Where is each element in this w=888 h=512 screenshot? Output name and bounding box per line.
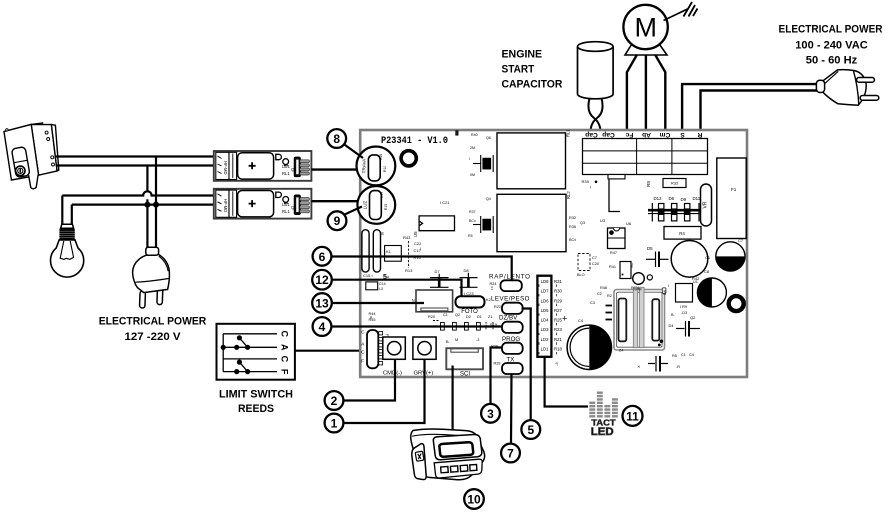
- connector SCI: [446, 348, 483, 369]
- svg-text:11: 11: [626, 409, 639, 423]
- callout 6: [313, 247, 332, 266]
- svg-text:Ab: Ab: [642, 131, 651, 138]
- svg-text:Z1: Z1: [488, 315, 492, 319]
- text ENGINE START CAPACITOR: [502, 49, 563, 91]
- svg-text:I: I: [668, 284, 669, 288]
- svg-text:RPM: RPM: [634, 287, 642, 291]
- transistor Q4 + C25: [473, 216, 493, 233]
- svg-text:K1: K1: [386, 250, 391, 254]
- svg-text:D5: D5: [647, 246, 653, 251]
- svg-text:D8: D8: [663, 290, 667, 295]
- svg-text:4: 4: [319, 320, 326, 334]
- callout 8: [327, 129, 346, 148]
- svg-text:D2: D2: [466, 315, 471, 319]
- svg-text:LD7: LD7: [541, 289, 549, 294]
- svg-text:C15 I: C15 I: [363, 273, 373, 278]
- resistor R4: [664, 227, 701, 240]
- optocoupler U3/U6: [608, 228, 626, 249]
- svg-text:Cap: Cap: [602, 131, 614, 138]
- svg-text:R41: R41: [609, 265, 616, 269]
- svg-text:R28: R28: [494, 362, 501, 366]
- svg-text:U6: U6: [626, 221, 632, 226]
- svg-text:REEDS: REEDS: [238, 403, 274, 415]
- svg-text:-3: -3: [476, 338, 479, 342]
- svg-text:5: 5: [527, 423, 534, 437]
- svg-text:C7: C7: [592, 256, 597, 260]
- relay RL1: [497, 133, 566, 189]
- svg-text:S: S: [680, 131, 685, 138]
- callout 3: [481, 404, 500, 423]
- svg-text:F: F: [280, 369, 290, 375]
- svg-text:Q3: Q3: [580, 221, 585, 225]
- svg-text:U1: U1: [693, 280, 698, 284]
- svg-text:U3: U3: [600, 218, 606, 223]
- diode row D12 D6 D9 D11: [654, 196, 701, 202]
- capacitor C16: [373, 230, 380, 272]
- svg-text:13: 13: [315, 297, 329, 311]
- wire: reeds to board: [295, 350, 360, 352]
- svg-text:C8: C8: [704, 269, 710, 274]
- mounting hole bottom-right: [729, 296, 744, 311]
- svg-text:R47: R47: [610, 251, 617, 255]
- svg-text:R30: R30: [554, 289, 562, 294]
- svg-text:Q2: Q2: [455, 313, 460, 317]
- button CMD(-): [383, 337, 406, 359]
- junction dots: [144, 202, 150, 208]
- svg-text:7: 7: [507, 447, 514, 461]
- svg-text:3: 3: [487, 407, 494, 421]
- svg-text:Q4: Q4: [486, 197, 491, 201]
- svg-text:C1: C1: [443, 313, 448, 317]
- svg-text:SC: SC: [630, 262, 634, 268]
- svg-text:D6: D6: [669, 196, 675, 201]
- svg-text:Z4: Z4: [619, 349, 623, 353]
- svg-text:LEVE/PESO: LEVE/PESO: [491, 296, 530, 303]
- svg-text:R: R: [697, 131, 702, 138]
- svg-text:A: A: [280, 344, 290, 351]
- wire: key switch to lock receiver (upper pair): [56, 157, 214, 249]
- svg-text:R22: R22: [494, 305, 501, 309]
- relay RL2: [497, 194, 566, 251]
- text ELECTRICAL POWER 100-240 VAC: [779, 24, 883, 67]
- capacitor C4 (half black, large): [567, 325, 611, 369]
- callout 11: [623, 406, 643, 426]
- fiducial mark top edge: [455, 130, 458, 135]
- svg-text:LD6: LD6: [541, 298, 549, 303]
- transistor Q6 + C24: [473, 155, 493, 172]
- svg-text:8: 8: [333, 132, 340, 146]
- svg-text:R46: R46: [600, 286, 607, 290]
- svg-text:I R9: I R9: [680, 305, 687, 309]
- svg-text:R45: R45: [369, 318, 376, 322]
- IC U5: [419, 216, 454, 231]
- svg-text:C14: C14: [379, 282, 386, 286]
- capacitor C5 bottom: [648, 356, 668, 372]
- svg-text:C4: C4: [578, 318, 584, 323]
- remote control transmitter (item 10): [411, 429, 485, 480]
- node letters C A C F: [280, 331, 290, 375]
- capacitor C8 (half black): [697, 278, 726, 307]
- svg-text:9: 9: [334, 214, 341, 228]
- svg-text:10: 10: [467, 493, 481, 507]
- svg-text:RL1: RL1: [566, 129, 571, 137]
- mains plug 127-220V: [133, 247, 170, 308]
- leader lines: [331, 144, 588, 445]
- svg-text:LD2: LD2: [541, 337, 549, 342]
- svg-text:C1: C1: [681, 353, 686, 357]
- svg-text:R39: R39: [582, 179, 590, 184]
- svg-text:R20: R20: [428, 315, 435, 319]
- svg-text:LD3: LD3: [541, 327, 549, 332]
- svg-text:D7: D7: [435, 269, 441, 274]
- svg-text:SCI: SCI: [460, 372, 470, 378]
- svg-text:R27: R27: [554, 308, 562, 313]
- svg-text:RL1: RL1: [282, 209, 290, 214]
- limit switch reeds box: [217, 324, 295, 380]
- transistor Q5: [620, 262, 631, 279]
- svg-text:C17: C17: [414, 248, 422, 253]
- key switch (wall key selector): [4, 123, 59, 189]
- svg-text:RL1: RL1: [282, 171, 290, 176]
- resistor R33: [663, 179, 686, 188]
- terminal labels Cap Cap Fc Ab Cm S R (rotated 180): [585, 131, 702, 138]
- buzzer BZ1: [416, 290, 453, 312]
- svg-text:R17: R17: [380, 192, 384, 198]
- svg-text:100 - 240 VAC: 100 - 240 VAC: [795, 40, 868, 52]
- svg-text:LD1: LD1: [282, 202, 290, 207]
- callout 5: [521, 420, 540, 439]
- motor base: [625, 43, 667, 55]
- svg-text:D11: D11: [693, 196, 701, 201]
- svg-text:C: C: [280, 331, 290, 338]
- svg-text:0M: 0M: [470, 173, 475, 177]
- receiver module RX2 (light): [214, 189, 312, 219]
- svg-text:F: F: [361, 359, 364, 364]
- svg-text:R18: R18: [554, 347, 562, 352]
- svg-text:D1: D1: [477, 315, 482, 319]
- callout 9: [328, 211, 347, 230]
- svg-text:R13: R13: [405, 268, 413, 273]
- wire: lamp drops: [61, 196, 63, 226]
- svg-text:R33: R33: [671, 182, 678, 186]
- svg-text:ELECTRICAL POWER: ELECTRICAL POWER: [99, 316, 207, 328]
- svg-text:Q1: Q1: [291, 167, 297, 172]
- svg-text:Q6: Q6: [486, 136, 491, 140]
- svg-text:CMD(-): CMD(-): [383, 371, 402, 377]
- svg-text:R40: R40: [471, 133, 478, 137]
- svg-text:C3: C3: [590, 301, 595, 305]
- svg-text:BCx: BCx: [569, 238, 576, 242]
- svg-text:DZ/BV: DZ/BV: [499, 315, 518, 322]
- svg-text:LD4: LD4: [541, 318, 549, 323]
- svg-text:-D3: -D3: [681, 311, 687, 315]
- capacitor wires: [588, 98, 602, 138]
- svg-text:LD8: LD8: [541, 279, 549, 284]
- svg-text:D4: D4: [669, 324, 674, 328]
- svg-text:R5: R5: [468, 234, 473, 238]
- wires: plug to terminals S R: [682, 84, 817, 138]
- svg-text:2: 2: [331, 394, 338, 408]
- receiver module RX1 (lock): [214, 151, 312, 181]
- svg-text:1: 1: [331, 417, 338, 431]
- svg-text:R24: R24: [490, 282, 497, 286]
- svg-text:127 -220 V: 127 -220 V: [125, 331, 182, 343]
- svg-text:R2: R2: [607, 294, 612, 298]
- svg-text:ENGINE: ENGINE: [502, 49, 543, 61]
- svg-text:TRAVA: TRAVA: [362, 158, 367, 174]
- callout 10: [464, 489, 484, 509]
- wire: vertical taps to mains plug: [146, 166, 148, 192]
- svg-text:R15: R15: [384, 204, 388, 210]
- svg-text:R37: R37: [469, 210, 476, 214]
- motor M: [623, 5, 667, 49]
- svg-text:Cap: Cap: [585, 131, 597, 138]
- svg-text:D8: D8: [464, 268, 470, 273]
- svg-text:Q1: Q1: [291, 205, 297, 210]
- svg-text:R5: R5: [672, 354, 677, 358]
- svg-text:VR: VR: [702, 201, 708, 208]
- varistor VR: [701, 184, 712, 226]
- control board outline: [360, 130, 747, 377]
- svg-text:Q2: Q2: [690, 315, 696, 320]
- svg-text:R36: R36: [569, 225, 576, 229]
- svg-text:Fc: Fc: [625, 131, 633, 138]
- wire: lamp to light receiver (lower pair, with hop): [62, 191, 214, 195]
- svg-text:+: +: [562, 314, 567, 324]
- svg-text:C20: C20: [592, 262, 599, 266]
- svg-text:Cm: Cm: [660, 131, 671, 138]
- transformer T1: [614, 290, 665, 351]
- svg-text:F1: F1: [731, 187, 737, 192]
- svg-text:R43: R43: [403, 235, 411, 240]
- mounting hole top-left: [401, 151, 416, 166]
- capacitor D7: [430, 274, 449, 288]
- svg-text:LD1: LD1: [282, 164, 290, 169]
- svg-text:ELECTRICAL POWER: ELECTRICAL POWER: [779, 24, 883, 36]
- svg-text:C4: C4: [689, 353, 694, 357]
- connector FOTO: [456, 296, 485, 307]
- svg-text:CAPACITOR: CAPACITOR: [502, 79, 563, 91]
- svg-text:R10: R10: [383, 166, 387, 172]
- connector CACF (limit reeds input): [361, 330, 365, 364]
- LED power indicator: [633, 273, 645, 285]
- LED bank LD1-LD8: [537, 276, 551, 357]
- svg-text:LUZ: LUZ: [363, 200, 368, 209]
- svg-text:LED: LED: [591, 426, 614, 438]
- svg-text:U5: U5: [413, 231, 418, 237]
- svg-text:R8: R8: [646, 181, 651, 187]
- callout 4: [313, 317, 332, 336]
- callout 12: [312, 270, 332, 290]
- lamp (light bulb): [51, 224, 84, 277]
- svg-text:C: C: [280, 356, 290, 363]
- svg-text:R31: R31: [554, 279, 562, 284]
- svg-text:HF-MD: HF-MD: [223, 199, 228, 213]
- IC U1: [676, 284, 693, 303]
- ground (earth) symbol: [664, 2, 698, 21]
- svg-text:R29: R29: [554, 298, 562, 303]
- svg-text:HF-MD: HF-MD: [223, 161, 228, 175]
- connector LUZ (circled 9): [357, 186, 395, 224]
- svg-text:LD5: LD5: [541, 308, 549, 313]
- wire: module RX2 to LUZ: [311, 200, 358, 202]
- reed switch 1: [239, 338, 247, 348]
- svg-text:R44: R44: [369, 312, 376, 316]
- capacitor D5: [646, 252, 669, 268]
- svg-text:L3: L3: [379, 287, 383, 291]
- svg-text:C2: C2: [597, 292, 602, 296]
- svg-text:D12: D12: [654, 196, 663, 201]
- svg-text:C1: C1: [705, 255, 711, 260]
- svg-text:I C23: I C23: [464, 291, 474, 296]
- svg-text:C7: C7: [738, 238, 744, 243]
- trace from strip: [609, 179, 620, 212]
- reed switch 2: [239, 362, 247, 372]
- svg-text:S: S: [381, 231, 384, 236]
- callout 13: [312, 293, 332, 313]
- capacitor C7 (half black): [716, 242, 745, 271]
- svg-text:12: 12: [315, 273, 329, 287]
- callout 1: [325, 414, 344, 433]
- svg-text:M: M: [635, 12, 658, 42]
- svg-text:I: I: [469, 157, 470, 161]
- wire: module RX1 to TRAVA: [311, 168, 357, 170]
- svg-text:2M: 2M: [470, 146, 475, 150]
- capacitor C1 (bulk): [671, 240, 708, 277]
- svg-text:50 - 60 Hz: 50 - 60 Hz: [806, 55, 858, 67]
- svg-text:R16: R16: [379, 154, 383, 160]
- svg-text:D9: D9: [681, 197, 687, 202]
- engine start capacitor: [578, 42, 614, 99]
- svg-text:BCx: BCx: [469, 219, 476, 223]
- mains plug 100-240V: [816, 70, 878, 106]
- fuse F1: [717, 158, 746, 239]
- capacitor Q2: [676, 321, 700, 337]
- connector TRAVA (circled 8): [357, 147, 396, 186]
- svg-text:RL2: RL2: [566, 191, 571, 199]
- misc labels near transformer: [590, 286, 687, 328]
- capacitor D8: [460, 273, 478, 288]
- svg-text:LD1: LD1: [541, 347, 549, 352]
- callout 7: [501, 444, 520, 463]
- relay K1: [385, 246, 402, 262]
- svg-text:R23: R23: [554, 327, 562, 332]
- terminal strip X1: [583, 139, 708, 179]
- callout 2: [325, 391, 344, 410]
- IC U7 (dashed): [578, 254, 590, 271]
- svg-text:P23341 - V1.0: P23341 - V1.0: [381, 135, 448, 147]
- svg-text:LIMIT SWITCH: LIMIT SWITCH: [219, 389, 293, 401]
- svg-text:R21: R21: [554, 337, 562, 342]
- button GRV(+): [413, 337, 436, 359]
- wires: motor to terminals Fc Ab Cm: [627, 55, 665, 138]
- TACT LED logo (item 11): [589, 391, 618, 417]
- svg-text:-R: -R: [676, 365, 680, 369]
- svg-text:GRV(+): GRV(+): [414, 371, 434, 377]
- diodes D1 D2 Z1 Q1 row: [428, 313, 492, 319]
- svg-text:R4: R4: [679, 231, 685, 236]
- svg-text:START: START: [502, 64, 535, 76]
- svg-text:6: 6: [319, 250, 326, 264]
- svg-text:M: M: [455, 338, 458, 342]
- svg-text:I: I: [590, 185, 591, 190]
- capacitor C15: [362, 230, 369, 272]
- svg-text:R32: R32: [569, 216, 576, 220]
- inductor L3: [366, 282, 378, 290]
- svg-text:BLO: BLO: [577, 273, 585, 277]
- svg-text:I C21: I C21: [440, 200, 450, 205]
